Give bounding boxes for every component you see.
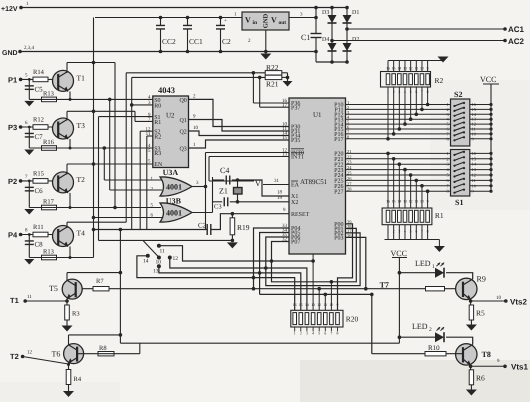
svg-text:R13: R13 [43,90,54,97]
svg-text:11: 11 [414,200,418,204]
svg-text:3: 3 [398,90,400,94]
svg-text:19: 19 [277,195,283,201]
svg-text:12: 12 [27,350,33,356]
svg-text:LED: LED [412,322,428,331]
svg-text:2,3,4: 2,3,4 [24,45,35,51]
svg-text:P2: P2 [8,177,17,186]
svg-text:GND: GND [2,50,18,57]
svg-text:T4: T4 [77,229,86,238]
svg-text:14: 14 [143,259,149,265]
svg-text:10: 10 [330,303,334,307]
svg-text:R12: R12 [33,117,44,124]
svg-text:12: 12 [317,303,321,307]
svg-text:T1: T1 [77,73,86,82]
svg-text:P37: P37 [291,105,300,111]
svg-text:10: 10 [496,295,502,301]
svg-text:P3: P3 [8,123,17,132]
svg-text:10: 10 [156,260,162,266]
svg-text:11: 11 [323,303,327,307]
svg-text:U2: U2 [166,112,175,120]
svg-text:R21: R21 [266,80,279,89]
svg-text:9: 9 [427,67,429,71]
svg-text:Q2: Q2 [179,130,186,136]
svg-text:EA: EA [291,183,300,189]
svg-text:3: 3 [398,230,400,234]
svg-text:R2: R2 [435,76,444,85]
svg-text:out: out [279,20,287,26]
svg-text:GND: GND [263,13,270,28]
svg-text:P35: P35 [291,138,300,144]
svg-text:R4: R4 [74,376,82,383]
svg-text:R17: R17 [43,199,55,206]
svg-text:6: 6 [415,90,417,94]
svg-text:R1: R1 [154,120,161,126]
svg-text:12: 12 [173,256,179,262]
svg-text:15: 15 [392,200,396,204]
svg-text:R13: R13 [43,249,54,256]
svg-text:R20: R20 [346,315,359,324]
svg-text:D4: D4 [322,37,329,43]
svg-text:14: 14 [305,303,309,307]
svg-text:+12V: +12V [1,6,18,13]
svg-text:2: 2 [393,230,395,234]
svg-text:7: 7 [421,230,423,234]
svg-text:C1: C1 [301,33,310,42]
svg-text:AC2: AC2 [508,37,525,46]
svg-text:2: 2 [300,332,302,336]
svg-text:U3A: U3A [163,168,179,177]
svg-text:15: 15 [299,303,303,307]
svg-text:10: 10 [420,67,424,71]
svg-text:R1: R1 [435,211,444,220]
svg-text:13: 13 [403,67,407,71]
svg-text:R7: R7 [96,278,104,285]
svg-text:1: 1 [387,230,389,234]
svg-text:R9: R9 [477,275,486,284]
svg-text:T3: T3 [77,121,86,130]
svg-text:13: 13 [403,200,407,204]
svg-text:+: + [224,19,227,24]
svg-text:T8: T8 [482,350,491,359]
svg-text:4: 4 [404,90,406,94]
svg-text:16: 16 [386,67,390,71]
svg-text:R19: R19 [237,223,250,232]
svg-text:16: 16 [293,303,297,307]
svg-text:7: 7 [330,332,332,336]
svg-text:C5: C5 [35,85,44,93]
svg-text:18: 18 [277,190,283,196]
svg-text:Q1: Q1 [179,118,186,124]
svg-text:10: 10 [193,125,199,131]
svg-text:14: 14 [397,67,401,71]
svg-text:P07: P07 [291,240,300,246]
svg-text:R3: R3 [154,151,161,157]
svg-text:15: 15 [392,67,396,71]
svg-text:2: 2 [393,90,395,94]
svg-text:P1: P1 [8,75,17,84]
svg-text:31: 31 [274,178,280,184]
svg-text:LED: LED [415,259,431,268]
svg-text:EN: EN [154,162,163,168]
svg-text:13: 13 [311,303,315,307]
svg-text:P27: P27 [334,189,343,195]
svg-text:V: V [245,16,251,25]
svg-text:5: 5 [410,230,412,234]
svg-text:4: 4 [312,332,314,336]
svg-text:10: 10 [420,200,424,204]
svg-text:Q3: Q3 [179,147,186,153]
svg-text:T2: T2 [10,352,19,361]
svg-text:14: 14 [397,200,401,204]
svg-text:R0: R0 [154,103,161,109]
svg-text:5: 5 [318,332,320,336]
svg-text:RESET: RESET [291,212,310,218]
svg-text:V: V [271,16,277,25]
svg-text:C4: C4 [220,166,229,175]
svg-text:9: 9 [427,200,429,204]
svg-text:D3: D3 [322,10,329,16]
svg-text:4001: 4001 [166,209,182,218]
svg-text:R6: R6 [476,374,485,383]
svg-text:17: 17 [282,102,288,108]
svg-text:11: 11 [146,131,151,137]
svg-text:R15: R15 [33,170,44,177]
svg-text:15: 15 [146,148,152,154]
svg-text:11: 11 [160,249,166,255]
svg-text:S2: S2 [454,90,462,99]
svg-text:8: 8 [427,230,429,234]
svg-text:INT1: INT1 [291,155,304,161]
svg-text:12: 12 [472,173,476,178]
svg-text:S1: S1 [455,198,463,207]
svg-text:C2: C2 [198,222,207,230]
svg-text:1: 1 [294,332,296,336]
svg-text:8: 8 [427,90,429,94]
svg-text:R11: R11 [33,224,44,231]
svg-text:C3: C3 [214,204,222,211]
svg-text:AT89C51: AT89C51 [300,178,328,186]
svg-text:4: 4 [404,230,406,234]
svg-text:11: 11 [472,178,476,183]
svg-text:P03: P03 [334,236,343,242]
svg-text:R8: R8 [99,345,107,352]
svg-text:13: 13 [153,269,159,275]
svg-text:3: 3 [306,332,308,336]
svg-text:6: 6 [415,230,417,234]
svg-text:13: 13 [282,152,288,158]
svg-text:R14: R14 [33,69,45,76]
svg-text:1: 1 [432,264,435,270]
svg-text:11: 11 [27,294,32,300]
svg-text:C6: C6 [35,187,44,195]
svg-text:CC1: CC1 [189,37,203,46]
svg-text:R10: R10 [428,344,440,352]
svg-text:9: 9 [337,303,339,307]
svg-text:Vts1: Vts1 [511,363,528,372]
svg-text:AC1: AC1 [508,25,525,34]
svg-text:R5: R5 [476,309,485,318]
svg-text:8: 8 [337,332,339,336]
svg-text:U1: U1 [313,111,322,119]
svg-text:T1: T1 [10,296,19,305]
svg-text:12: 12 [409,67,413,71]
svg-text:R3: R3 [72,311,80,318]
svg-text:15: 15 [282,135,288,141]
svg-text:7: 7 [421,90,423,94]
svg-text:4001: 4001 [166,183,182,192]
svg-text:CC2: CC2 [162,37,176,46]
svg-text:VCC: VCC [480,75,496,84]
svg-text:X2: X2 [291,200,298,206]
svg-text:T7: T7 [380,281,389,290]
svg-text:1: 1 [387,90,389,94]
svg-text:C2: C2 [222,37,231,46]
svg-text:T6: T6 [52,350,61,359]
svg-text:T5: T5 [49,284,58,293]
svg-text:VCC: VCC [391,249,407,258]
svg-text:16: 16 [386,200,390,204]
svg-text:11: 11 [414,67,418,71]
svg-text:5: 5 [410,90,412,94]
svg-text:R22: R22 [266,63,279,72]
svg-text:P17: P17 [334,137,343,143]
svg-text:D1: D1 [352,10,359,16]
svg-text:R2: R2 [154,135,161,141]
svg-text:12: 12 [409,200,413,204]
svg-text:T2: T2 [77,175,86,184]
svg-text:C7: C7 [35,133,44,141]
svg-text:2: 2 [429,327,432,333]
svg-text:Vts2: Vts2 [510,298,527,307]
svg-text:in: in [253,20,258,26]
svg-text:C8: C8 [35,241,44,249]
svg-text:Q0: Q0 [179,98,186,104]
svg-text:Z1: Z1 [219,187,228,196]
svg-text:R16: R16 [43,139,55,146]
svg-text:P4: P4 [8,231,18,240]
svg-text:6: 6 [324,332,326,336]
svg-text:4043: 4043 [158,85,175,95]
